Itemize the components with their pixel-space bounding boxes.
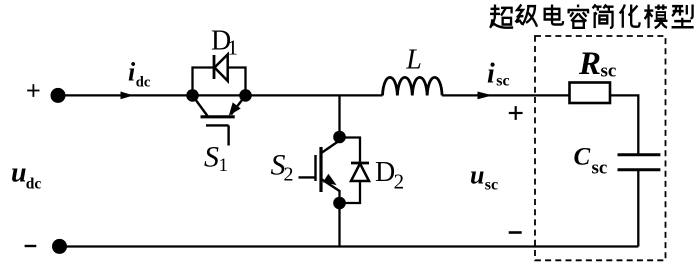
svg-text:1: 1 [227, 35, 238, 59]
diode D2 cathode bar [351, 162, 369, 165]
S1 channel bar [201, 115, 235, 118]
CJK char 模 [644, 4, 667, 28]
wire top rail left (DC+ to inductor) [58, 94, 383, 96]
wire S2 emitter to bottom dot [338, 190, 340, 203]
node S2 top junction dot [333, 131, 346, 144]
wire S2 branch from top rail [338, 95, 340, 137]
wire bottom rail [60, 245, 639, 247]
svg-text:u: u [470, 160, 484, 189]
wire D2 branch top [340, 138, 361, 164]
inductor L [383, 77, 443, 95]
CJK char 简 [593, 4, 614, 28]
wire D2 branch bottom [340, 181, 361, 203]
current arrow i_dc [121, 92, 134, 100]
transistor S2 (IGBT) [299, 141, 340, 193]
CJK char 化 [620, 4, 640, 27]
diode D1 triangle [215, 54, 228, 81]
S1 emitter diagonal [231, 95, 246, 114]
wire capacitor to bottom rail [637, 170, 639, 247]
S1 gate lead stub [227, 125, 229, 145]
wire S2 branch to bottom rail [338, 203, 340, 247]
svg-text:sc: sc [496, 73, 509, 90]
S1 collector diagonal [193, 95, 208, 116]
CJK char 超 [490, 4, 513, 27]
svg-text:D: D [375, 157, 395, 188]
transistor S1 (IGBT) [193, 95, 246, 145]
S2 channel bar [319, 147, 322, 192]
svg-text:2: 2 [284, 164, 294, 186]
svg-text:u: u [11, 158, 27, 189]
node S2 bottom junction dot [333, 197, 346, 210]
svg-text:C: C [574, 143, 591, 170]
svg-text:1: 1 [219, 155, 229, 176]
diode D1 cathode bar [213, 55, 216, 79]
S1 emitter arrowhead [229, 102, 241, 115]
svg-text:R: R [578, 46, 601, 82]
dashed box supercapacitor model [535, 36, 666, 260]
node DC+ terminal plus sign [27, 84, 39, 97]
svg-text:S: S [204, 141, 219, 174]
capacitor C_sc top plate [618, 153, 661, 156]
svg-text:i: i [128, 58, 136, 87]
S2 collector diagonal [322, 141, 340, 153]
title: hand-drawn CJK 超级电容简化模型 [490, 4, 694, 28]
S2 gate lead [299, 176, 316, 178]
capacitor C_sc bottom plate [618, 168, 661, 171]
svg-text:sc: sc [592, 158, 608, 179]
node DC- terminal dot [52, 239, 67, 254]
CJK char 容 [568, 4, 590, 27]
svg-text:sc: sc [485, 177, 498, 194]
svg-text:dc: dc [26, 175, 42, 192]
S2 emitter arrowhead [323, 174, 337, 185]
diode D2 triangle [351, 164, 369, 182]
S2 emitter diagonal [322, 180, 340, 192]
svg-text:sc: sc [601, 61, 617, 82]
current arrow i_sc [478, 92, 493, 100]
u_sc plus sign [509, 106, 523, 120]
CJK char 电 [545, 4, 563, 24]
node DC+ terminal dot [51, 88, 66, 103]
svg-text:dc: dc [136, 74, 151, 90]
resistor R_sc box [570, 83, 611, 104]
svg-text:L: L [405, 44, 422, 75]
wire D1 loop [193, 68, 246, 97]
wire R_sc to capacitor branch [610, 95, 638, 154]
CJK char 级 [516, 4, 538, 26]
node junction dot right of S1 [239, 89, 252, 102]
wire top rail right (inductor to R_sc) [442, 94, 570, 96]
S2 gate bar [314, 155, 316, 181]
node junction dot left of S1 [186, 89, 199, 102]
S1 gate bar [206, 124, 229, 126]
u_sc minus sign [509, 231, 522, 234]
CJK char 型 [672, 4, 694, 27]
node DC- terminal minus sign [25, 245, 37, 247]
svg-text:2: 2 [394, 170, 405, 194]
svg-text:i: i [487, 58, 495, 89]
